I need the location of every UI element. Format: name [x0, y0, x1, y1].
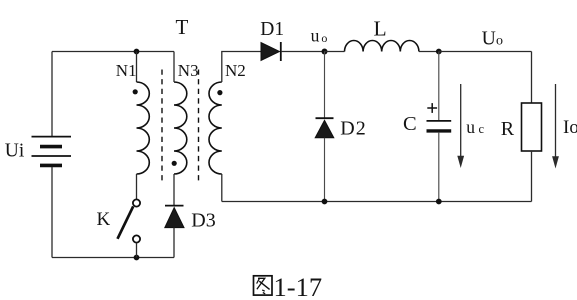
wire N1 bottom to switch	[136, 174, 138, 199]
wire bottom-left rail	[52, 257, 174, 259]
label u_c	[466, 117, 484, 137]
wire left rail lower	[51, 167, 53, 258]
wire switch bottom	[136, 243, 138, 258]
svg-text:o: o	[321, 31, 327, 45]
svg-text:u: u	[466, 117, 475, 137]
caption 图1-17	[254, 276, 273, 295]
svg-text:D1: D1	[260, 19, 284, 40]
inductor L	[345, 40, 419, 51]
svg-text:N1: N1	[116, 61, 137, 80]
diode D2	[315, 118, 334, 138]
wire R bottom	[531, 151, 533, 202]
junction K-bottom / rail	[134, 255, 140, 261]
transformer T winding N2	[209, 82, 222, 174]
label U_o	[482, 27, 503, 49]
switch K	[118, 199, 141, 242]
plus sign of C	[427, 103, 437, 113]
wire D3 anode to rail	[173, 228, 175, 258]
svg-text:1-17: 1-17	[274, 272, 323, 300]
wire down to R	[531, 52, 533, 104]
svg-text:R: R	[501, 118, 515, 140]
svg-text:C: C	[403, 113, 417, 135]
svg-text:T: T	[176, 15, 189, 39]
polarity dot N1	[133, 89, 138, 94]
svg-text:N3: N3	[178, 61, 199, 80]
junction D2 / rail	[322, 199, 328, 205]
svg-text:D2: D2	[340, 118, 366, 140]
wire top-right rail	[439, 51, 532, 53]
wire C bottom	[438, 133, 440, 202]
wire top-left rail	[52, 51, 174, 53]
wire N2 bottom	[221, 174, 223, 202]
polarity dot N3	[172, 161, 177, 166]
diode D3	[165, 206, 184, 228]
junction L/C node	[436, 49, 442, 55]
transformer T winding N1	[137, 82, 150, 174]
wire N2 top to D1	[222, 52, 261, 83]
transformer T winding N3	[174, 82, 187, 174]
wire bottom rail	[222, 201, 532, 203]
wire D2 cathode drop	[324, 52, 326, 119]
label u_o	[311, 26, 328, 46]
polarity dot N2	[217, 90, 222, 95]
arrow Io	[552, 84, 559, 169]
wire N3 bottom to D3	[173, 174, 175, 206]
capacitor C	[427, 121, 452, 131]
wire D2 anode to rail	[324, 138, 326, 202]
arrow u_c	[457, 84, 464, 168]
resistor R	[522, 103, 542, 151]
wire left rail upper	[51, 52, 53, 137]
svg-text:D3: D3	[191, 209, 215, 231]
transformer core dashed line left	[161, 70, 163, 184]
svg-text:K: K	[97, 209, 111, 230]
node u_o	[322, 49, 328, 55]
diode D1	[261, 42, 281, 61]
svg-text:N2: N2	[225, 61, 246, 80]
svg-text:c: c	[479, 122, 485, 136]
wire L to node	[419, 51, 439, 53]
svg-text:u: u	[311, 26, 320, 46]
wire N3 top drop	[173, 52, 175, 83]
junction C / rail	[436, 199, 442, 205]
wire N1 top drop	[136, 52, 138, 83]
transformer core dashed line right	[198, 70, 200, 184]
junction N1 top	[134, 49, 140, 55]
svg-text:Ui: Ui	[5, 141, 25, 162]
wire node uo to L	[325, 51, 345, 53]
svg-text:Io: Io	[563, 117, 577, 138]
svg-text:L: L	[374, 16, 387, 40]
battery Ui	[32, 137, 72, 166]
svg-text:U: U	[482, 27, 496, 49]
wire D1 cathode to node uo	[282, 51, 325, 53]
wire C top	[438, 52, 440, 121]
svg-text:o: o	[496, 34, 503, 49]
